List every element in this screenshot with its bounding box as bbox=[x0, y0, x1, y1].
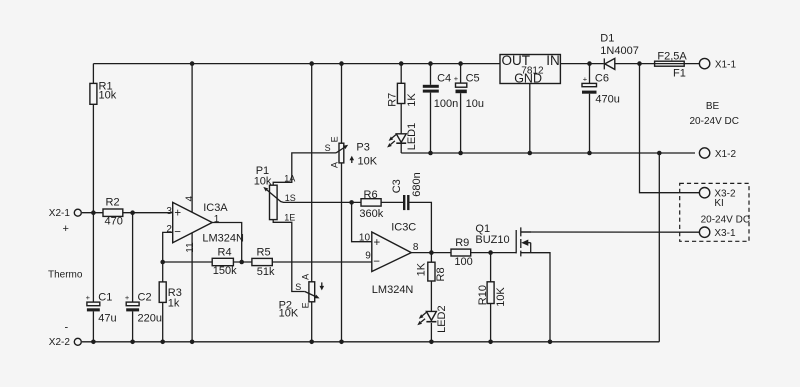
capacitor C2 bbox=[125, 292, 162, 325]
LED LED1 bbox=[387, 123, 418, 151]
svg-text:LED1: LED1 bbox=[406, 123, 418, 151]
svg-text:A: A bbox=[301, 274, 311, 280]
wire IC3A pin 4 to rail bbox=[191, 64, 193, 213]
junction top rail at P2 bbox=[309, 61, 314, 66]
junction ground rail at P3 bbox=[339, 340, 344, 345]
svg-text:D1: D1 bbox=[600, 33, 614, 45]
svg-text:9: 9 bbox=[365, 250, 371, 261]
wire R10 top lead bbox=[490, 253, 492, 282]
wire LED1 bottom to 0V line bbox=[400, 144, 402, 153]
svg-text:C1: C1 bbox=[98, 292, 112, 304]
svg-text:1N4007: 1N4007 bbox=[600, 45, 639, 57]
wire P2 bottom lead E to ground bbox=[311, 302, 313, 342]
svg-text:S: S bbox=[295, 282, 301, 292]
wire R2 to IC3A pin 3 bbox=[123, 212, 173, 214]
svg-text:1E: 1E bbox=[284, 212, 295, 222]
svg-text:R9: R9 bbox=[455, 237, 469, 249]
wire ground riser to X1-2 line bbox=[658, 153, 660, 342]
LED LED2 bbox=[417, 305, 448, 333]
svg-text:1K: 1K bbox=[416, 262, 428, 276]
svg-text:C4: C4 bbox=[437, 73, 451, 85]
svg-text:+: + bbox=[125, 293, 130, 302]
resistor R5 bbox=[252, 247, 275, 278]
svg-text:A: A bbox=[329, 162, 339, 168]
wire R10 bottom lead bbox=[490, 304, 492, 342]
wire Q1 drain to X3-1 bbox=[521, 231, 700, 233]
svg-text:R4: R4 bbox=[218, 246, 232, 258]
svg-text:1: 1 bbox=[214, 214, 220, 225]
svg-text:1S: 1S bbox=[285, 193, 296, 203]
svg-text:10K: 10K bbox=[495, 287, 507, 307]
wire Q1 source to ground bbox=[521, 253, 550, 342]
wire C6 top lead bbox=[589, 64, 591, 84]
svg-text:GND: GND bbox=[514, 72, 542, 86]
wire P1 wiper 1S to R6 bbox=[281, 201, 362, 204]
voltage regulator 7812 bbox=[500, 53, 560, 86]
svg-text:C5: C5 bbox=[466, 73, 480, 85]
wire P3 bottom lead A to ground bbox=[341, 163, 343, 342]
wire C1 bottom lead bbox=[92, 311, 94, 341]
transistor Q1 bbox=[475, 223, 531, 257]
wire 0V line LED1 to X1-2 bbox=[401, 152, 695, 154]
resistor R4 bbox=[212, 246, 237, 277]
wire R6 to C3 bbox=[381, 201, 403, 203]
wire R4 to R5 bbox=[233, 261, 252, 263]
svg-text:X1-1: X1-1 bbox=[715, 59, 737, 70]
op-amp IC3C bbox=[359, 221, 419, 296]
svg-text:IC3C: IC3C bbox=[391, 221, 416, 233]
svg-text:10K: 10K bbox=[279, 307, 299, 319]
svg-text:2: 2 bbox=[166, 224, 172, 235]
resistor R10 bbox=[477, 282, 507, 307]
svg-text:Q1: Q1 bbox=[475, 223, 490, 235]
junction ground rail at C1 bbox=[91, 340, 96, 345]
svg-text:KI: KI bbox=[714, 198, 723, 209]
capacitor C1 bbox=[86, 292, 117, 325]
svg-text:10K: 10K bbox=[358, 156, 378, 168]
terminal X3-2 bbox=[699, 188, 736, 200]
svg-text:R7: R7 bbox=[387, 93, 399, 107]
wire IC3A pin 11 to ground bbox=[191, 233, 193, 342]
junction 0V line at 7812 GND bbox=[528, 151, 533, 156]
svg-text:R6: R6 bbox=[364, 189, 378, 201]
potentiometer P2 bbox=[279, 274, 325, 320]
svg-text:E: E bbox=[329, 136, 339, 142]
junction 0V line at C5 bbox=[458, 151, 463, 156]
wire C5 bottom lead bbox=[460, 93, 462, 153]
resistor R8 bbox=[416, 262, 447, 281]
wire node to R4 bbox=[163, 261, 213, 263]
junction top rail at IC3A pin 4 bbox=[190, 61, 195, 66]
svg-text:1K: 1K bbox=[406, 93, 418, 107]
op-amp IC3A bbox=[166, 196, 244, 253]
svg-text:470: 470 bbox=[105, 216, 123, 228]
wire X2-1 to R2 bbox=[82, 212, 103, 214]
resistor R6 bbox=[359, 189, 383, 220]
svg-text:X2-2: X2-2 bbox=[49, 337, 71, 348]
terminal X2-2 bbox=[49, 337, 82, 348]
wire R3 bottom lead bbox=[162, 302, 164, 341]
junction top rail at C5 bbox=[458, 61, 463, 66]
wire LED2 to ground bbox=[430, 323, 432, 342]
diode D1 bbox=[600, 33, 639, 70]
svg-text:220u: 220u bbox=[138, 313, 162, 325]
wire IC3A pin 2 bbox=[163, 232, 173, 262]
wire P3 top lead E to rail bbox=[341, 64, 343, 144]
svg-text:1A: 1A bbox=[284, 174, 295, 184]
capacitor C4 bbox=[423, 73, 458, 111]
svg-text:+: + bbox=[583, 75, 588, 84]
svg-text:P3: P3 bbox=[356, 142, 369, 154]
junction top rail at P3 bbox=[339, 61, 344, 66]
wire ground bottom rail bbox=[82, 341, 659, 343]
wire C2 top lead bbox=[132, 213, 134, 302]
svg-text:IN: IN bbox=[546, 53, 560, 68]
svg-text:1k: 1k bbox=[168, 297, 180, 309]
junction ground rail at R10 bbox=[488, 340, 493, 345]
svg-text:+: + bbox=[86, 293, 91, 302]
junction ground rail at P2 bbox=[309, 340, 314, 345]
potentiometer P3 bbox=[325, 136, 378, 168]
svg-text:LED2: LED2 bbox=[436, 305, 448, 333]
svg-text:+: + bbox=[63, 223, 69, 235]
fuse F1 bbox=[655, 51, 688, 80]
wire diode anode to fuse to X1-1 bbox=[615, 63, 699, 65]
wire R5 to IC3C pin 9 bbox=[272, 261, 372, 263]
wire R7 top lead bbox=[400, 64, 402, 84]
terminal X1-2 bbox=[699, 148, 736, 160]
junction 0V line at C4 bbox=[428, 151, 433, 156]
junction inverting node R3 bbox=[160, 260, 165, 265]
svg-text:−: − bbox=[373, 256, 380, 268]
svg-text:BE: BE bbox=[706, 101, 720, 112]
svg-text:F2,5A: F2,5A bbox=[657, 51, 687, 63]
junction IC3C output node bbox=[429, 250, 434, 255]
resistor R2 bbox=[103, 196, 123, 227]
junction P1 wiper R6 node bbox=[349, 200, 354, 205]
svg-text:11: 11 bbox=[185, 242, 196, 253]
svg-text:47u: 47u bbox=[98, 313, 116, 325]
svg-text:10k: 10k bbox=[254, 175, 272, 187]
wire P1 pin 1E down to P2 wiper S bbox=[273, 220, 305, 292]
wire C1 top lead bbox=[92, 213, 94, 302]
svg-text:S: S bbox=[325, 143, 331, 153]
svg-text:10u: 10u bbox=[466, 98, 484, 110]
svg-text:E: E bbox=[301, 302, 311, 308]
svg-text:C3: C3 bbox=[391, 179, 403, 193]
junction 0V line at ground riser bbox=[657, 151, 662, 156]
svg-text:360k: 360k bbox=[359, 208, 383, 220]
wire C2 bottom lead bbox=[132, 311, 134, 341]
svg-text:X3-1: X3-1 bbox=[714, 228, 736, 239]
resistor R7 bbox=[387, 83, 418, 107]
resistor R1 bbox=[90, 80, 117, 104]
svg-text:LM324N: LM324N bbox=[202, 232, 244, 244]
wire R9 to Q1 gate bbox=[471, 252, 517, 254]
wire R8 top lead bbox=[430, 253, 432, 263]
wire C6 bottom lead bbox=[589, 94, 591, 153]
resistor R3 bbox=[159, 282, 182, 309]
junction ground rail at Q1 source bbox=[548, 340, 553, 345]
junction top rail at R7 bbox=[399, 61, 404, 66]
svg-text:100: 100 bbox=[454, 256, 472, 268]
wire C5 top lead bbox=[460, 64, 462, 84]
svg-text:IC3A: IC3A bbox=[203, 202, 228, 214]
svg-text:10k: 10k bbox=[99, 89, 117, 101]
svg-text:150k: 150k bbox=[213, 265, 237, 277]
svg-text:BUZ10: BUZ10 bbox=[475, 234, 509, 246]
terminal X2-1 bbox=[49, 208, 82, 219]
svg-text:Thermo: Thermo bbox=[48, 269, 83, 280]
junction ground rail at R3 bbox=[160, 340, 165, 345]
svg-text:R8: R8 bbox=[435, 267, 447, 281]
wire R1 bottom lead to X2-1 node bbox=[92, 104, 94, 212]
svg-text:X2-1: X2-1 bbox=[49, 208, 71, 219]
wire 7812 GND pin bbox=[529, 84, 531, 154]
svg-text:680n: 680n bbox=[411, 172, 423, 196]
svg-text:20-24V DC: 20-24V DC bbox=[701, 215, 750, 226]
KI dashed box bbox=[680, 183, 749, 241]
svg-text:LM324N: LM324N bbox=[372, 284, 414, 296]
wire R8 to LED2 bbox=[430, 281, 432, 311]
wire P2 top lead A to rail bbox=[311, 64, 313, 282]
wire regulator IN to diode cathode bbox=[560, 63, 603, 65]
svg-text:3: 3 bbox=[166, 206, 172, 217]
svg-text:51k: 51k bbox=[257, 266, 275, 278]
wire IC3A pin 1 output down to R4 node bbox=[212, 223, 242, 263]
junction at diode anode X3-2 branch bbox=[637, 61, 642, 66]
capacitor C5 bbox=[454, 73, 484, 111]
svg-text:8: 8 bbox=[413, 242, 419, 253]
wire R6 node down to IC3C pin 10 bbox=[352, 202, 372, 241]
junction at diode cathode C6 bbox=[587, 61, 592, 66]
wire R3 top lead bbox=[162, 262, 164, 282]
junction X2-1 node C2 bbox=[130, 210, 135, 215]
svg-text:100n: 100n bbox=[434, 98, 458, 110]
terminal X3-1 bbox=[699, 227, 736, 239]
svg-text:R5: R5 bbox=[257, 247, 271, 259]
potentiometer P1 bbox=[254, 165, 296, 222]
wire P1 pin 1A up to P3 wiper S bbox=[273, 153, 336, 185]
junction 0V line at C6 bbox=[587, 151, 592, 156]
junction Q1 gate node bbox=[488, 250, 493, 255]
wire diode anode branch down to X3-2 bbox=[640, 64, 701, 193]
svg-text:20-24V DC: 20-24V DC bbox=[690, 116, 739, 127]
junction top rail at C4 bbox=[428, 61, 433, 66]
svg-text:−: − bbox=[174, 226, 181, 238]
svg-text:470u: 470u bbox=[595, 93, 619, 105]
svg-text:+: + bbox=[454, 74, 459, 83]
svg-text:4: 4 bbox=[185, 196, 196, 202]
junction IC3A output node bbox=[239, 260, 244, 265]
capacitor C3 bbox=[391, 172, 423, 210]
svg-text:+: + bbox=[174, 207, 181, 219]
wire C3 to output node bbox=[409, 202, 431, 252]
svg-text:R10: R10 bbox=[477, 285, 489, 305]
wire C4 bottom lead bbox=[430, 93, 432, 153]
svg-text:C2: C2 bbox=[138, 292, 152, 304]
svg-text:+: + bbox=[374, 237, 381, 249]
svg-text:-: - bbox=[65, 322, 69, 334]
wire top +12V rail bbox=[93, 63, 500, 65]
capacitor C6 bbox=[582, 73, 620, 106]
svg-text:10: 10 bbox=[359, 233, 371, 244]
resistor R9 bbox=[451, 237, 473, 268]
wire IC3C pin 8 output to R9 bbox=[411, 252, 451, 254]
junction ground rail at IC3A pin 11 bbox=[190, 340, 195, 345]
terminal X1-1 bbox=[699, 58, 736, 70]
wire C4 top lead bbox=[430, 64, 432, 85]
junction X2-1 node R1 bbox=[91, 210, 96, 215]
svg-text:C6: C6 bbox=[595, 73, 609, 85]
svg-text:F1: F1 bbox=[673, 67, 686, 79]
svg-text:X1-2: X1-2 bbox=[715, 149, 737, 160]
svg-text:R2: R2 bbox=[106, 196, 120, 208]
wire R7 to LED1 bbox=[400, 104, 402, 134]
junction ground rail at LED2 bbox=[429, 340, 434, 345]
wire R1 top lead bbox=[92, 64, 94, 84]
junction ground rail at C2 bbox=[130, 340, 135, 345]
